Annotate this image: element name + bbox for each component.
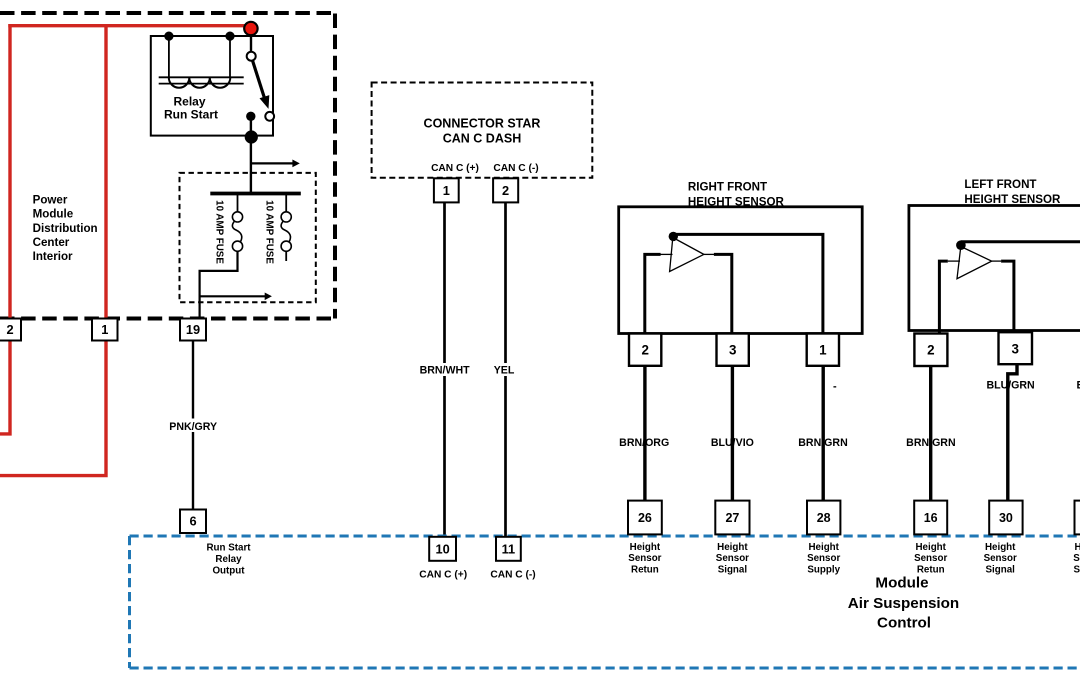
svg-text:BRN: BRN	[1077, 379, 1080, 391]
svg-text:Height: Height	[630, 542, 661, 553]
svg-text:10: 10	[435, 541, 449, 556]
module pin 16 label	[914, 542, 947, 576]
red B+ bus wire	[8, 24, 252, 27]
fuse block dashed box	[180, 173, 316, 302]
RF pin 2 box	[629, 334, 661, 366]
svg-text:-: -	[833, 381, 837, 393]
module blue dashed box: Air Suspension Control	[130, 535, 1080, 538]
fuse bus bar	[210, 192, 300, 196]
wire BLU/GRN LF pin3 to module pin30	[1008, 364, 1017, 500]
module pin box clipped at right edge	[1075, 501, 1080, 535]
wire BRN/GRN LF pin2 to module pin16	[929, 366, 932, 501]
svg-text:BRN/WHT: BRN/WHT	[420, 364, 471, 376]
module pin 28 label	[807, 542, 840, 576]
arrow inside fuse box	[200, 295, 266, 297]
svg-text:Run Start: Run Start	[206, 543, 251, 554]
svg-text:Supply: Supply	[807, 564, 840, 575]
svg-text:Supply: Supply	[1073, 564, 1080, 575]
svg-text:19: 19	[186, 322, 200, 337]
svg-text:Height: Height	[985, 542, 1016, 553]
svg-text:Run Start: Run Start	[164, 108, 218, 122]
svg-text:Height: Height	[1075, 542, 1080, 553]
RF pin 1 box	[807, 334, 839, 366]
svg-text:1: 1	[443, 183, 450, 198]
svg-text:PNK/GRY: PNK/GRY	[169, 421, 217, 433]
svg-text:Height: Height	[915, 542, 946, 553]
wire BRN/ORG RF pin2 to module pin26	[643, 366, 646, 501]
svg-text:Control: Control	[877, 615, 931, 632]
svg-text:HEIGHT SENSOR: HEIGHT SENSOR	[964, 193, 1061, 206]
LF pin 2 box	[914, 334, 947, 367]
fuse F2 (right, 10 AMP FUSE)	[281, 195, 291, 261]
svg-text:10 AMP FUSE: 10 AMP FUSE	[264, 200, 275, 264]
svg-text:Air Suspension: Air Suspension	[848, 595, 959, 612]
svg-text:27: 27	[725, 511, 739, 525]
svg-text:3: 3	[729, 342, 736, 357]
svg-text:11: 11	[502, 541, 516, 556]
svg-text:Sensor: Sensor	[914, 553, 947, 564]
relay switch	[246, 30, 274, 121]
module pin 26 label	[628, 542, 661, 576]
LF pin 3 box	[999, 332, 1033, 364]
svg-text:Sensor: Sensor	[1073, 553, 1080, 564]
module pin 26 box	[628, 501, 662, 535]
svg-text:3: 3	[1011, 341, 1018, 356]
connector star pin 2	[493, 178, 518, 202]
RF pin 3 box	[717, 334, 749, 366]
svg-text:Height: Height	[808, 542, 839, 553]
svg-text:Height: Height	[717, 542, 748, 553]
svg-text:28: 28	[817, 511, 831, 525]
svg-text:Relay: Relay	[215, 554, 242, 565]
fuse F1 (left, 10 AMP FUSE)	[200, 195, 243, 318]
wire BRN/GRN RF pin1 to module pin28	[822, 366, 825, 501]
svg-text:1: 1	[819, 342, 827, 357]
module pin 28 box	[807, 501, 840, 535]
LF sensor internals	[939, 240, 1080, 334]
relay box outline	[151, 36, 273, 136]
svg-text:Module: Module	[33, 208, 74, 221]
svg-text:Distribution: Distribution	[33, 222, 98, 235]
clipped module pin label right edge	[1073, 542, 1080, 576]
svg-text:CAN C (-): CAN C (-)	[490, 570, 535, 581]
svg-text:CAN C DASH: CAN C DASH	[443, 131, 521, 145]
svg-text:2: 2	[502, 183, 509, 198]
right front height sensor box	[619, 207, 863, 334]
label YEL	[490, 363, 518, 376]
svg-text:Sensor: Sensor	[716, 553, 749, 564]
svg-text:2: 2	[927, 342, 934, 357]
red wire to pin 1	[0, 24, 106, 476]
arrow to right (run/start feed)	[251, 162, 294, 164]
pin 2 box	[0, 319, 21, 341]
svg-text:2: 2	[6, 322, 13, 337]
svg-text:YEL: YEL	[494, 364, 515, 376]
pin 19 box	[180, 319, 206, 341]
svg-text:CAN C (+): CAN C (+)	[431, 163, 479, 174]
svg-text:LEFT FRONT: LEFT FRONT	[964, 178, 1036, 191]
connector star pin 1	[434, 178, 459, 202]
connector star dashed box	[372, 83, 593, 178]
wire BLU/VIO RF pin3 to module pin27	[731, 366, 734, 501]
module pin 11 box	[496, 537, 521, 561]
red wire to pin 2	[0, 24, 10, 434]
left front height sensor box	[909, 206, 1080, 331]
pin 1 box	[92, 319, 118, 341]
svg-text:CONNECTOR STAR: CONNECTOR STAR	[424, 116, 541, 130]
Power Module Distribution Center Interior dashed box	[0, 11, 335, 15]
relay coil	[159, 31, 244, 87]
svg-text:CAN C (+): CAN C (+)	[419, 570, 467, 581]
svg-text:Output: Output	[212, 565, 245, 576]
svg-text:Power: Power	[33, 194, 68, 207]
svg-text:30: 30	[999, 511, 1013, 525]
svg-text:Signal: Signal	[718, 564, 748, 575]
svg-text:RIGHT FRONT: RIGHT FRONT	[688, 180, 767, 193]
wire CAN C (+) BRN/WHT	[443, 200, 446, 537]
svg-text:BLU/GRN: BLU/GRN	[986, 379, 1034, 391]
svg-text:26: 26	[638, 511, 652, 525]
svg-text:CAN C (-): CAN C (-)	[493, 163, 538, 174]
module pin 27 box	[715, 501, 749, 535]
svg-text:6: 6	[189, 514, 196, 529]
svg-text:Relay: Relay	[173, 94, 205, 108]
svg-text:1: 1	[101, 322, 108, 337]
svg-text:Interior: Interior	[33, 250, 73, 263]
svg-text:Signal: Signal	[985, 564, 1015, 575]
svg-text:Sensor: Sensor	[807, 553, 840, 564]
wire CAN C (-) YEL	[504, 200, 507, 537]
wire relay output down	[250, 116, 252, 193]
RF sensor internals	[645, 232, 823, 334]
svg-text:16: 16	[924, 511, 938, 525]
red dot junction	[244, 22, 257, 35]
module pin 30 box	[989, 501, 1022, 535]
module pin 10 box	[429, 537, 456, 561]
svg-text:Center: Center	[33, 236, 70, 249]
pin 6 box	[180, 510, 206, 534]
svg-text:2: 2	[641, 342, 648, 357]
label BRN/WHT	[416, 363, 473, 376]
wire PNK/GRY pin19 to pin6	[192, 341, 194, 510]
svg-text:Sensor: Sensor	[984, 553, 1017, 564]
svg-text:10 AMP FUSE: 10 AMP FUSE	[214, 200, 225, 264]
junction dot on relay box bottom	[245, 130, 258, 143]
module pin 16 box	[914, 501, 947, 535]
svg-text:Retun: Retun	[917, 564, 945, 575]
module pin 27 label	[716, 542, 749, 576]
svg-text:Sensor: Sensor	[628, 553, 661, 564]
svg-text:Module: Module	[875, 575, 928, 592]
svg-text:Retun: Retun	[631, 564, 659, 575]
module pin 30 label	[984, 542, 1017, 576]
